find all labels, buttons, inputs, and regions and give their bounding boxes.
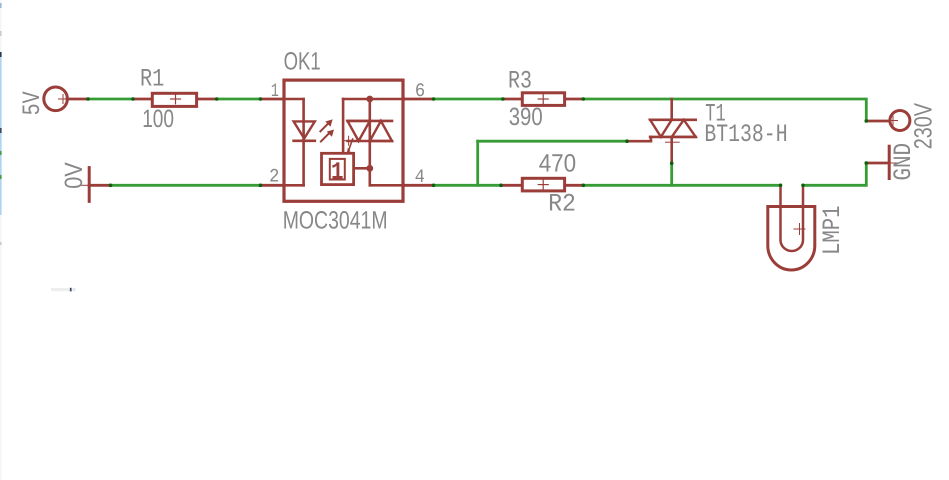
svg-text:BT138-H: BT138-H [704,120,787,149]
wire net N$5 (R2 to LMP1 left pin) [583,184,780,187]
wire net N$1 (R1 to OK1 pin1) [217,98,261,101]
wire net N$2 (OK1 pin6 to R3) [434,98,504,101]
svg-text:GND: GND [889,143,918,181]
svg-text:2: 2 [269,166,279,188]
OK1 internal bottom rail right [370,184,405,187]
resistor R1 [133,93,217,106]
svg-text:0V: 0V [60,162,88,189]
OK1 origin cross [344,140,353,142]
OK1 junction dot top [366,96,373,103]
pin 4 stub [405,184,434,187]
supply 0V symbol [81,168,111,202]
T1 origin cross [666,141,680,143]
ground GND symbol [866,146,897,178]
opto-coupler OK1 body [261,80,434,201]
lamp LMP1 [768,185,815,270]
wire net 0V (0V to OK1 pin2) [111,184,261,187]
wire net N$4 (OK1 pin4 to R2, with branch corner) [434,184,502,187]
supply +5V symbol P+1 [44,87,88,111]
resistor R3 [503,93,583,106]
OK1 internal LED [294,121,315,138]
OK1 gate diagonal [348,139,352,152]
wire net gate branch vertical [476,141,479,185]
connected-pin junction dots [86,97,868,187]
svg-text:1: 1 [271,80,279,102]
svg-text:R1: R1 [140,65,164,94]
wire net N$1 (5V to R1) [88,98,133,101]
left edge screen artifacts [0,0,2,480]
T1 gate stub [627,140,651,143]
svg-text:4: 4 [415,166,425,188]
svg-text:OK1: OK1 [284,48,321,76]
triac T1 [627,99,696,163]
svg-text:230V: 230V [910,103,938,150]
svg-text:1: 1 [331,160,343,187]
OK1 internal center vertical [368,99,371,185]
svg-text:6: 6 [415,80,425,102]
OK1 light arrows [320,123,329,141]
svg-text:5V: 5V [18,91,47,115]
wire net N$6 (LMP1 right pin to GND corner) [803,163,866,185]
svg-text:LMP1: LMP1 [818,205,847,255]
svg-text:100: 100 [142,105,174,133]
wire net gate branch horizontal to T1 gate [478,140,627,143]
wire net N$3 (R3 to T1 MT2 to 230V corner) [583,99,866,121]
svg-text:MOC3041M: MOC3041M [283,206,388,234]
pin 2 stub [261,184,284,187]
OK1 internal top rail [343,98,405,101]
wire net N$5 (T1 MT1 drop) [670,163,673,185]
svg-text:R2: R2 [548,189,576,218]
pin 1 stub [261,98,284,101]
svg-text:R3: R3 [508,67,532,96]
OK1 internal left vertical to detector [342,99,345,153]
supply 230V symbol [866,111,910,131]
resistor R2 [501,178,583,191]
bottom-left smudge artifact [51,288,76,292]
OK1 internal led branch [283,98,304,101]
OK1 zero-cross detector box [322,153,354,184]
OK1 junction dot bottom [366,165,373,172]
OK1 internal triac [348,120,393,123]
pin 6 stub [405,98,434,101]
OK1 detector output link [354,167,370,170]
svg-text:470: 470 [539,150,576,178]
svg-text:390: 390 [509,103,543,131]
